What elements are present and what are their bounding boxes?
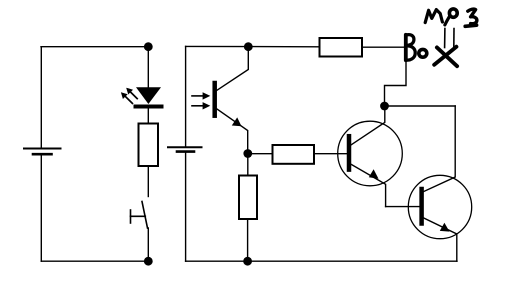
wire switch to bottom rail <box>147 228 149 261</box>
wire R2 to Q1 base <box>314 153 347 155</box>
wire node to R3 <box>247 154 249 176</box>
transistor Q2 base bar <box>419 189 424 224</box>
resistor R3 <box>239 176 257 220</box>
transistor Q1 collector <box>351 106 385 145</box>
wire middle-loop left upper <box>185 46 187 147</box>
wire collector rail to junction <box>385 105 456 107</box>
transistor Q2 circle <box>408 175 471 238</box>
wire middle-loop left lower <box>185 152 187 262</box>
transistor Q1 base bar <box>347 136 352 169</box>
resistor R1 <box>139 124 159 167</box>
wire left-loop left side upper <box>40 47 42 149</box>
LED emission arrow lower <box>121 92 132 103</box>
battery B2 <box>168 147 202 151</box>
label Box handwritten B <box>406 35 415 61</box>
node junction dot bottom left <box>144 257 153 266</box>
battery B1 <box>24 149 61 155</box>
node junction dot top middle <box>244 42 253 51</box>
wire left-loop top <box>41 46 148 48</box>
transistor Q2 collector <box>424 106 455 192</box>
phototransistor U1 collector <box>217 47 248 91</box>
wire left-loop left side lower <box>40 154 42 261</box>
node junction dot emitter/divider <box>243 149 252 158</box>
phototransistor U1 emitter with arrow <box>217 109 248 154</box>
wire Box to collector junction <box>385 61 407 107</box>
light arrow upper into U1 <box>192 92 210 99</box>
node junction dot collector <box>380 102 389 111</box>
wire LED cathode to R1 <box>147 107 149 124</box>
wire R3 to bottom rail <box>247 219 249 261</box>
node junction dot bottom middle <box>243 257 252 266</box>
label MP3 handwritten <box>425 9 477 26</box>
wire stroke from MP3 to X right <box>453 29 455 49</box>
wire U1 emitter node to R2 <box>248 153 272 155</box>
wire Q1 emitter to Q2 base <box>386 206 420 208</box>
label Box handwritten X <box>434 47 457 66</box>
LED emission arrow upper <box>126 88 137 99</box>
label Box handwritten o <box>419 49 427 57</box>
wire LED anode <box>147 47 149 88</box>
resistor R2 <box>273 145 315 164</box>
transistor Q2 emitter with arrow <box>424 218 457 261</box>
wire left-loop bottom <box>41 260 148 262</box>
wire stroke from MP3 to X left <box>444 29 446 48</box>
wire R1 to switch <box>147 166 149 197</box>
resistor R4 <box>320 38 363 57</box>
transistor Q1 emitter with arrow <box>351 164 385 206</box>
node junction dot top of LED branch <box>144 42 153 51</box>
LED D1 <box>136 87 162 106</box>
phototransistor U1 base bar <box>212 83 217 116</box>
switch S1 pushbutton <box>131 202 148 229</box>
transistor Q1 circle <box>338 121 403 186</box>
wire R4 to Box <box>362 46 405 48</box>
wire middle-loop top <box>186 45 319 47</box>
light arrow lower into U1 <box>192 102 210 109</box>
wire bottom rail <box>186 260 457 262</box>
